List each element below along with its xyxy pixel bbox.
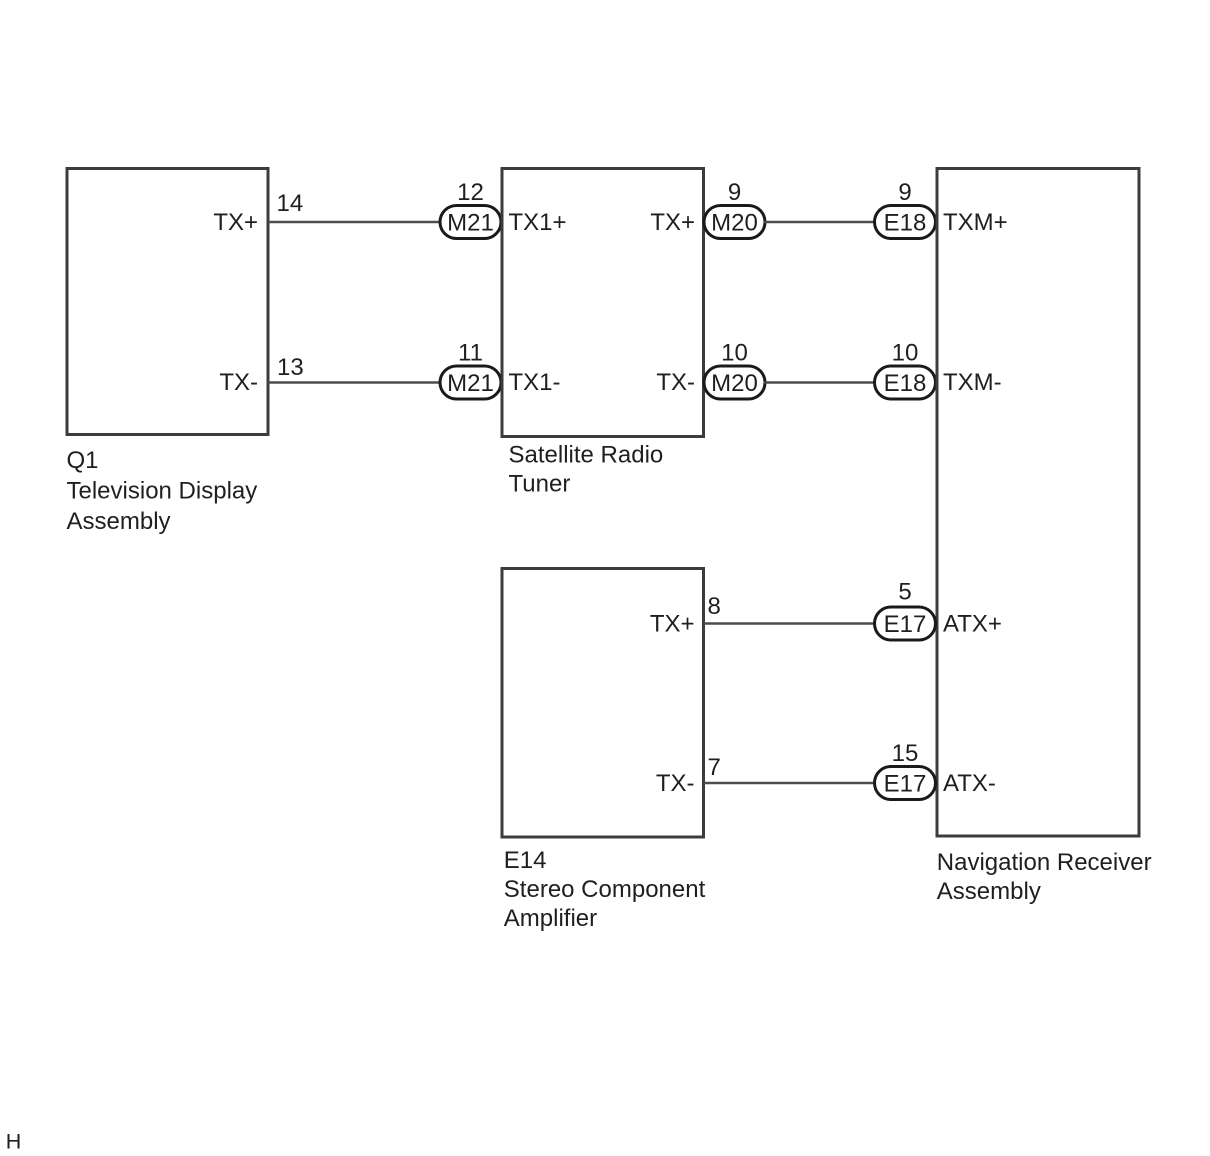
svg-text:13: 13 — [277, 354, 304, 381]
svg-text:E17: E17 — [884, 611, 927, 638]
svg-text:8: 8 — [708, 593, 721, 620]
svg-text:11: 11 — [458, 340, 483, 367]
svg-text:E18: E18 — [884, 370, 927, 397]
svg-text:7: 7 — [708, 754, 721, 781]
svg-text:TX1+: TX1+ — [509, 209, 567, 236]
caption Navigation Receiver Assembly — [937, 849, 1152, 905]
svg-text:TXM+: TXM+ — [943, 209, 1008, 236]
wire Q1 TX- to connector M21 pin 11 — [268, 381, 441, 384]
connector M20 pin 9 — [704, 179, 765, 239]
svg-text:TX+: TX+ — [650, 209, 695, 236]
svg-text:E18: E18 — [884, 210, 927, 237]
svg-text:Amplifier: Amplifier — [504, 905, 597, 932]
svg-text:E17: E17 — [884, 771, 927, 798]
svg-text:TXM-: TXM- — [943, 369, 1002, 396]
svg-text:Assembly: Assembly — [67, 508, 171, 535]
svg-text:5: 5 — [898, 579, 911, 606]
svg-text:Assembly: Assembly — [937, 878, 1041, 905]
svg-text:TX-: TX- — [219, 369, 258, 396]
svg-text:9: 9 — [728, 179, 741, 206]
svg-text:ATX+: ATX+ — [943, 611, 1002, 638]
svg-text:Satellite Radio: Satellite Radio — [509, 442, 664, 469]
svg-text:14: 14 — [277, 190, 304, 217]
wire Q1 TX+ to connector M21 pin 12 — [268, 221, 441, 224]
connector E18 pin 9 — [875, 179, 936, 239]
component Q1 Television Display Assembly box — [67, 169, 268, 435]
component Satellite Radio Tuner box — [502, 169, 704, 437]
wire E14 TX- to connector E17 pin 15 — [704, 782, 877, 785]
wire M20 pin 10 to connector E18 pin 10 — [764, 381, 876, 384]
connector M21 pin 12 — [440, 179, 501, 239]
svg-text:TX+: TX+ — [213, 209, 258, 236]
svg-text:TX+: TX+ — [650, 611, 695, 638]
component Navigation Receiver Assembly box — [937, 169, 1139, 837]
component E14 Stereo Component Amplifier box — [502, 569, 704, 838]
wire M20 pin 9 to connector E18 pin 9 — [764, 221, 876, 224]
svg-text:M20: M20 — [711, 370, 758, 397]
caption Q1 Television Display Assembly — [67, 447, 258, 535]
svg-text:15: 15 — [892, 740, 919, 767]
svg-text:ATX-: ATX- — [943, 770, 996, 797]
svg-text:M21: M21 — [447, 210, 494, 237]
svg-text:TX1-: TX1- — [509, 369, 561, 396]
wire E14 TX+ to connector E17 pin 5 — [704, 622, 877, 625]
svg-text:TX-: TX- — [656, 770, 695, 797]
svg-text:10: 10 — [721, 340, 748, 367]
caption Satellite Radio Tuner — [509, 442, 664, 498]
svg-text:Navigation Receiver: Navigation Receiver — [937, 849, 1152, 876]
svg-text:Tuner: Tuner — [509, 471, 571, 498]
connector E17 pin 5 — [875, 579, 936, 641]
svg-text:Stereo Component: Stereo Component — [504, 876, 706, 903]
svg-text:10: 10 — [892, 340, 919, 367]
svg-text:M20: M20 — [711, 210, 758, 237]
svg-text:Q1: Q1 — [67, 447, 99, 474]
connector E18 pin 10 — [875, 340, 936, 400]
svg-text:E14: E14 — [504, 847, 547, 874]
svg-text:12: 12 — [457, 179, 484, 206]
svg-text:9: 9 — [898, 179, 911, 206]
connector M21 pin 11 — [440, 340, 501, 400]
svg-text:H: H — [6, 1130, 22, 1154]
connector M20 pin 10 — [704, 340, 765, 400]
svg-text:M21: M21 — [447, 370, 494, 397]
svg-text:TX-: TX- — [656, 369, 695, 396]
caption E14 Stereo Component Amplifier — [504, 847, 706, 932]
svg-text:Television Display: Television Display — [67, 478, 258, 505]
connector E17 pin 15 — [875, 740, 936, 800]
